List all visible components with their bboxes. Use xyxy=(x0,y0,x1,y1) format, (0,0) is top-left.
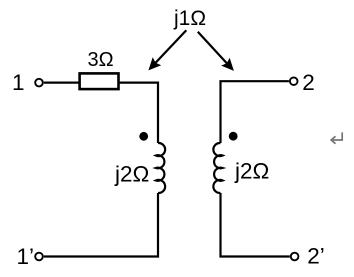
svg-text:1: 1 xyxy=(12,70,25,95)
svg-text:1’: 1’ xyxy=(17,244,35,269)
svg-text:j2Ω: j2Ω xyxy=(234,159,269,184)
svg-text:j2Ω: j2Ω xyxy=(114,162,149,187)
svg-text:3Ω: 3Ω xyxy=(87,49,113,71)
svg-text:2: 2 xyxy=(302,70,315,95)
svg-text:j1Ω: j1Ω xyxy=(173,7,206,30)
svg-text:2’: 2’ xyxy=(307,243,325,268)
